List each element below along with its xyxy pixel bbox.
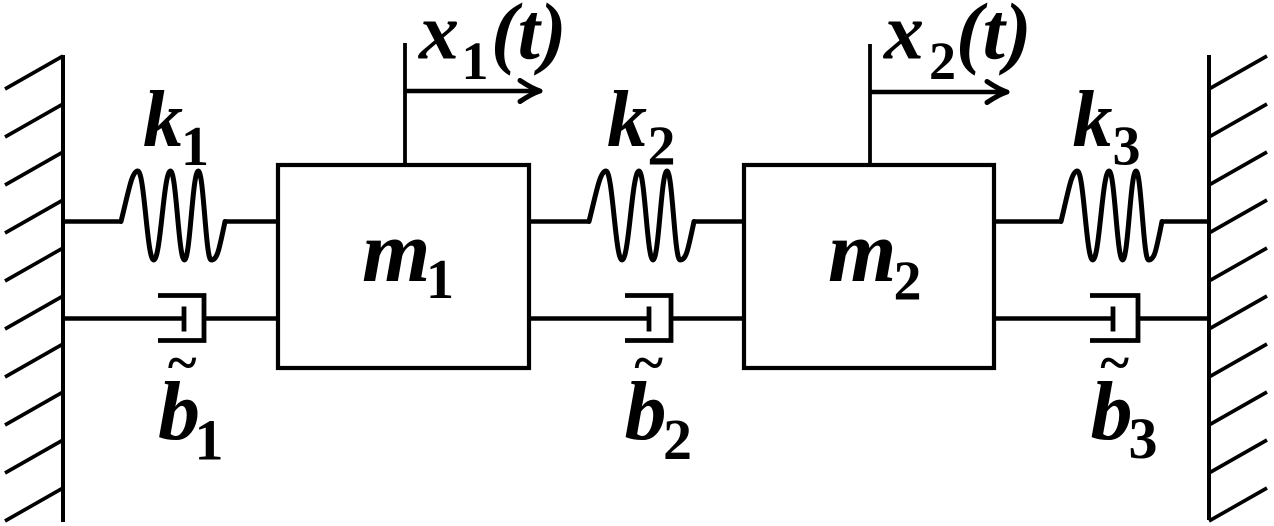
left fixed wall: [5, 55, 63, 522]
svg-text:~: ~: [1099, 332, 1130, 393]
label x1(t): [418, 0, 567, 91]
svg-text:m: m: [362, 204, 430, 301]
svg-text:(t): (t): [956, 0, 1032, 77]
wire: mass m2 to spring k3: [994, 219, 1062, 223]
damper b1: [158, 296, 204, 341]
wire: mass m1 to spring k2: [529, 219, 590, 223]
svg-text:2: 2: [929, 31, 956, 91]
mass m2 label: [828, 204, 922, 313]
spring k2: [589, 171, 694, 260]
wire: spring k2 to mass m2: [693, 219, 744, 223]
svg-text:2: 2: [663, 407, 692, 472]
wire: mass m2 to damper b3 piston rod: [994, 316, 1113, 320]
wire: mass m1 to damper b2 piston rod: [529, 316, 649, 320]
mass m2 box: [744, 165, 994, 368]
svg-text:1: 1: [426, 249, 454, 311]
label b3 (b-tilde sub 3): [1091, 332, 1158, 471]
svg-text:x: x: [883, 0, 924, 77]
svg-text:1: 1: [181, 116, 209, 178]
wire: left wall to damper b1 piston rod: [63, 316, 184, 320]
label x2(t): [883, 0, 1032, 91]
right fixed wall: [1209, 55, 1267, 521]
spring k1: [121, 171, 225, 260]
svg-text:m: m: [828, 204, 896, 301]
svg-text:k: k: [143, 76, 183, 164]
damper b2: [625, 296, 671, 341]
damper b3: [1090, 296, 1138, 341]
displacement arrow x2: [870, 82, 1007, 103]
spring k3: [1061, 171, 1162, 260]
label b1 (b-tilde sub 1): [158, 332, 224, 473]
svg-text:~: ~: [633, 332, 664, 393]
label k2: [607, 76, 676, 178]
svg-text:1: 1: [195, 408, 224, 473]
wire: spring k3 to right wall: [1161, 219, 1209, 223]
svg-text:x: x: [418, 0, 459, 77]
svg-text:3: 3: [1129, 406, 1158, 471]
label k3: [1073, 76, 1141, 178]
wire: spring k1 to mass m1: [224, 219, 278, 223]
displacement stem x2: [868, 44, 872, 165]
svg-text:2: 2: [648, 116, 676, 178]
wire: damper b1 to mass m1: [204, 316, 278, 320]
displacement arrow x1: [405, 81, 540, 102]
svg-text:(t): (t): [491, 0, 567, 77]
wire: damper b3 to right wall: [1138, 316, 1209, 320]
wire: left wall to spring k1: [63, 219, 122, 223]
label k1: [143, 76, 209, 178]
mass m1 box: [278, 165, 529, 368]
svg-text:2: 2: [894, 251, 922, 313]
svg-text:3: 3: [1113, 116, 1141, 178]
wire: damper b2 to mass m2: [671, 316, 744, 320]
svg-text:k: k: [1073, 76, 1113, 164]
mass m1 label: [362, 204, 454, 311]
svg-text:k: k: [607, 76, 647, 164]
svg-text:~: ~: [166, 332, 197, 393]
label b2 (b-tilde sub 2): [625, 332, 693, 472]
displacement stem x1: [403, 43, 407, 165]
svg-text:1: 1: [462, 31, 489, 91]
